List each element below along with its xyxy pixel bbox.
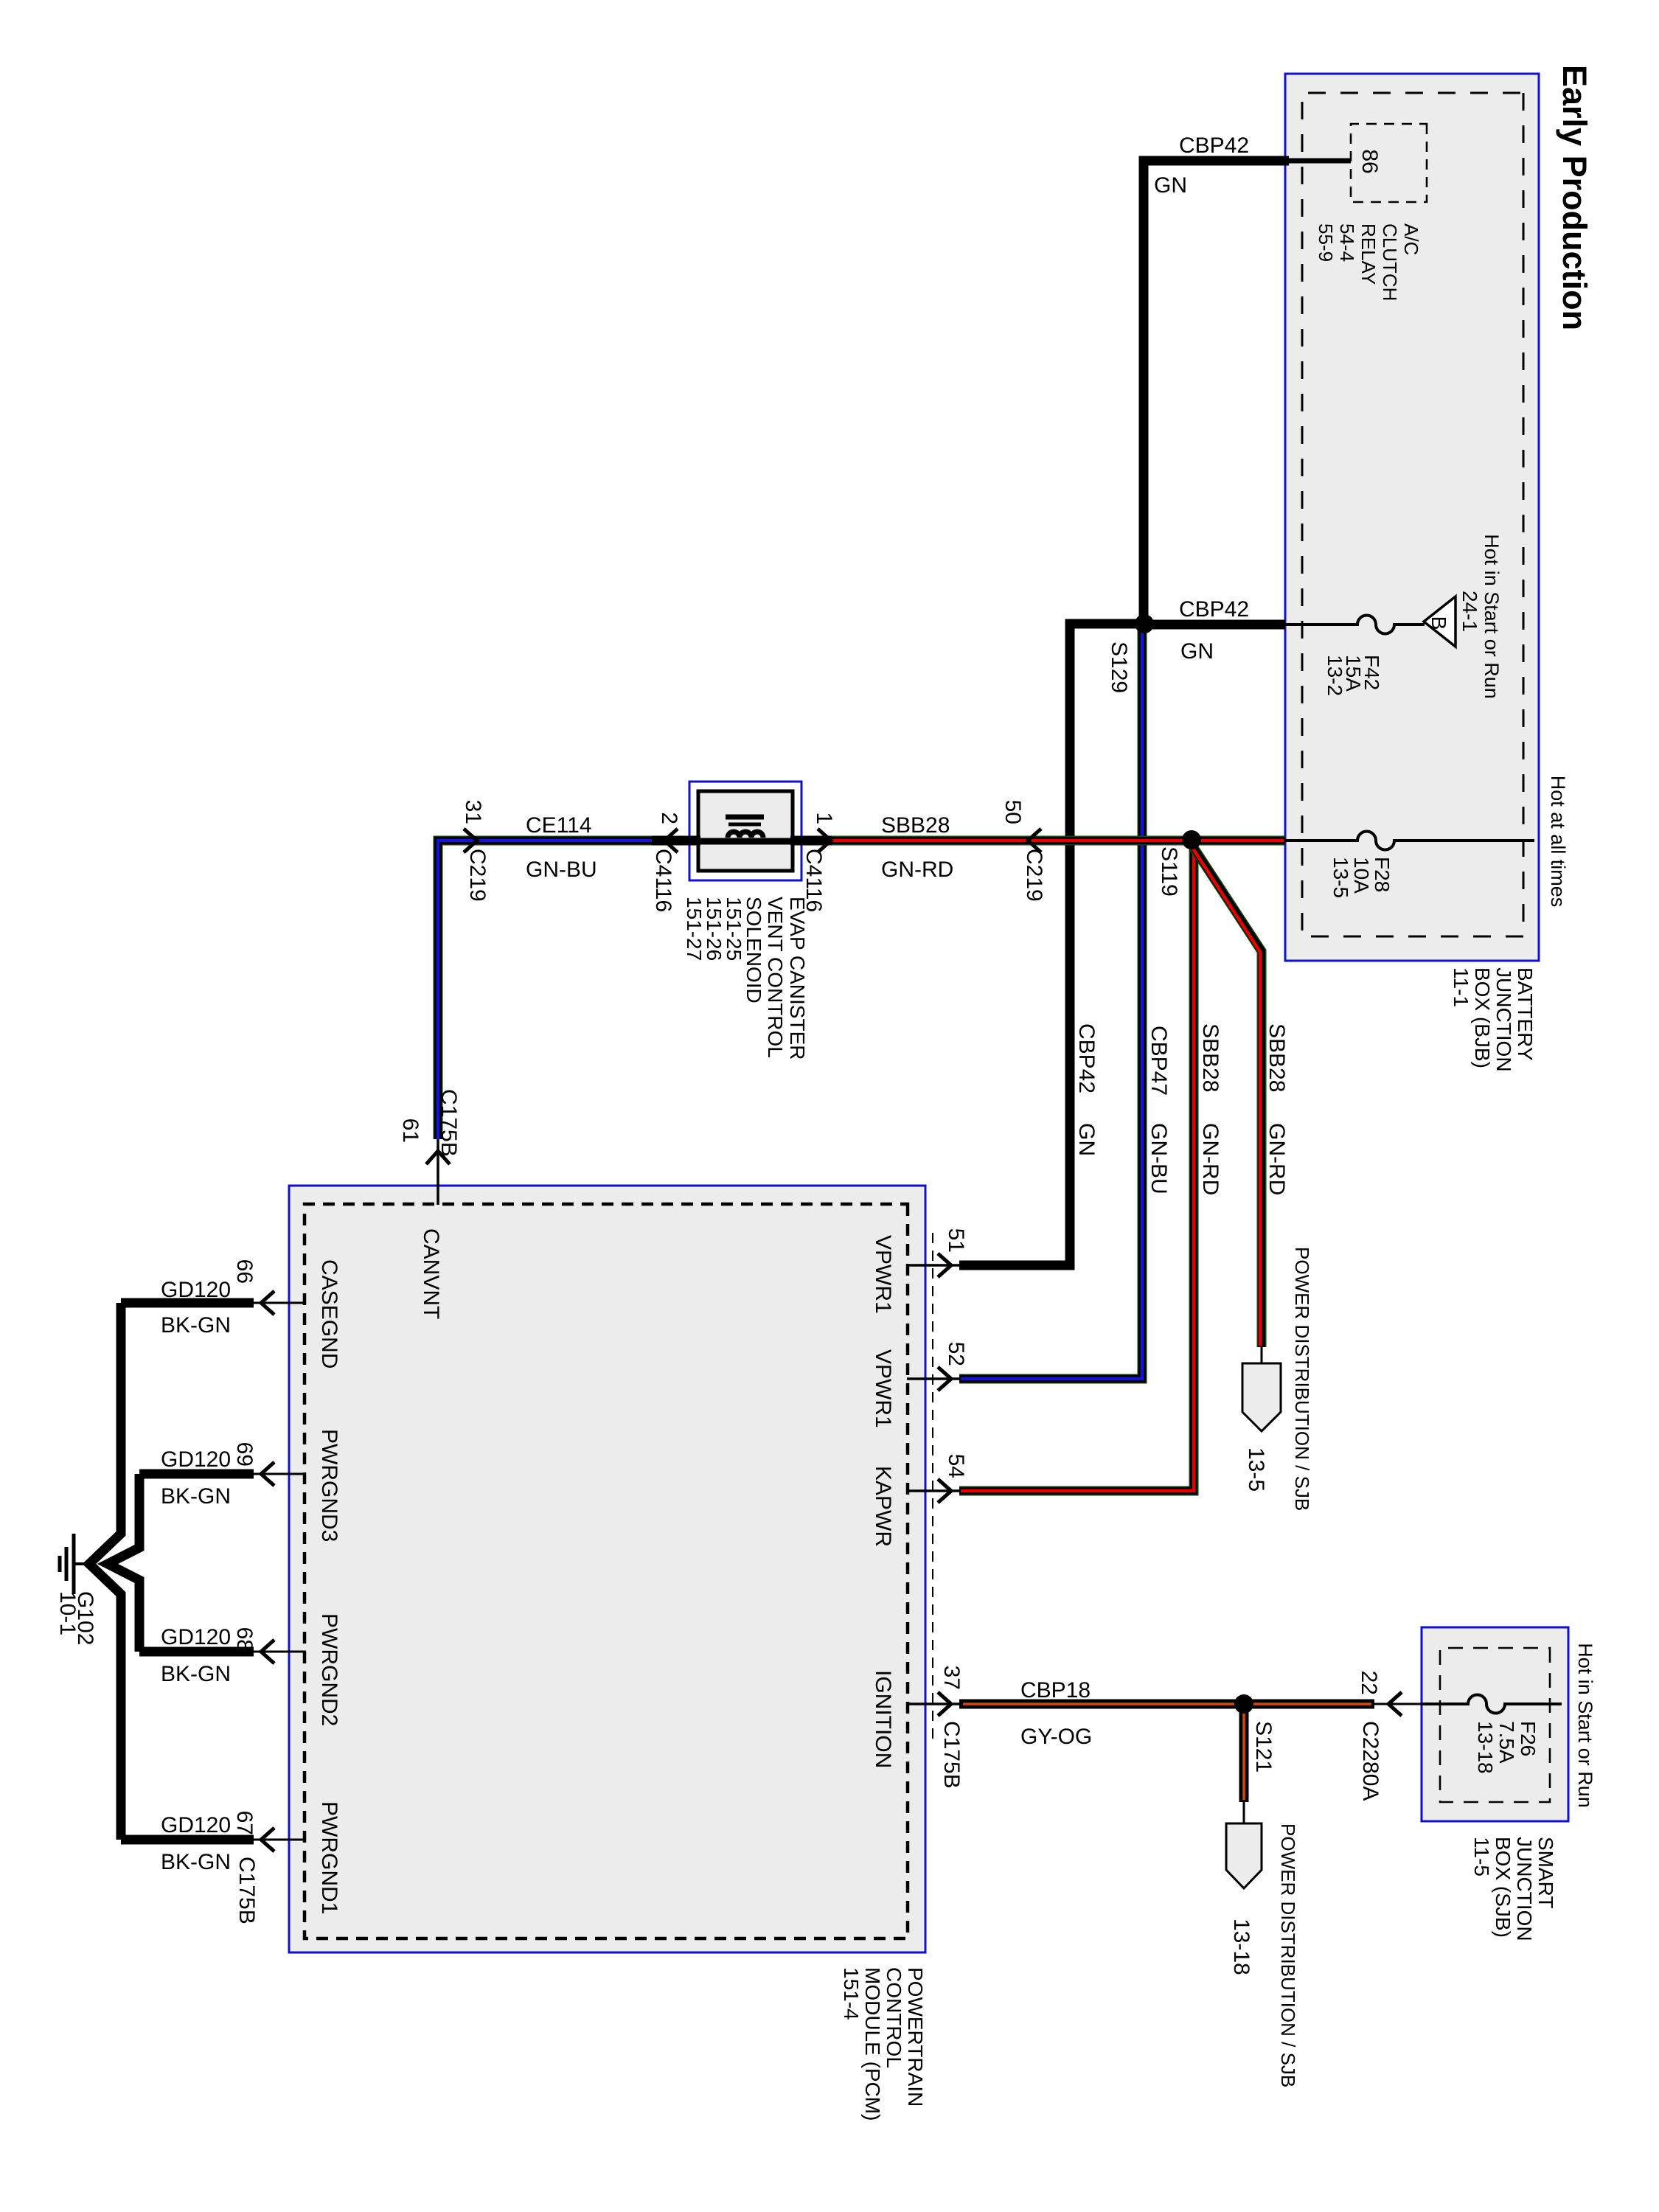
arrow pin 2 C4116: [664, 829, 678, 852]
PCM pin name PWRGND1 (67): [317, 1801, 341, 1914]
pin 2 and connector C4116: [651, 812, 681, 912]
label POWERTRAIN CONTROL MODULE (PCM) 151-4: [840, 1967, 927, 2121]
PCM inner dashed boundary: [305, 1204, 908, 1938]
svg-text:GN-RD: GN-RD: [1198, 1123, 1222, 1195]
svg-text:BOX (SJB): BOX (SJB): [1492, 1837, 1514, 1938]
svg-text:13-18: 13-18: [1229, 1919, 1253, 1975]
svg-text:GN-RD: GN-RD: [1265, 1123, 1289, 1195]
wire black stub from solenoid box (pin 1): [790, 836, 835, 846]
svg-text:37: 37: [939, 1666, 964, 1690]
pin 50 and connector C219: [1001, 800, 1046, 902]
fuse F26 label: [1474, 1721, 1540, 1774]
junction S121: [1234, 1694, 1253, 1714]
svg-text:S119: S119: [1157, 846, 1181, 897]
svg-text:68: 68: [232, 1627, 257, 1652]
label POWER DISTRIBUTION / SJB (13-5): [1244, 1247, 1313, 1511]
svg-text:10A: 10A: [1350, 857, 1373, 894]
header Hot in Start or Run (BJB): [1481, 534, 1503, 699]
svg-text:Hot in Start or Run: Hot in Start or Run: [1574, 1643, 1596, 1808]
arrow pin 54: [938, 1479, 951, 1503]
label GD120 BK-GN (pin 66): [161, 1278, 231, 1338]
svg-text:PWRGND1: PWRGND1: [317, 1801, 341, 1914]
wire CBP42 GN relay stub (pin 86): [1284, 159, 1351, 164]
svg-text:CONTROL: CONTROL: [883, 1967, 905, 2068]
svg-text:B: B: [1427, 616, 1450, 630]
off-page arrow POWER DISTRIBUTION / SJB 13-18: [1226, 1823, 1262, 1888]
arrow pin 31 C219: [464, 829, 477, 852]
svg-text:SBB28: SBB28: [1198, 1023, 1222, 1092]
svg-text:BK-GN: BK-GN: [161, 1662, 231, 1686]
PCM pin name VPWR1 (52): [871, 1349, 895, 1428]
svg-text:C2280A: C2280A: [1358, 1721, 1382, 1801]
arrow pin 61: [426, 1151, 450, 1164]
svg-text:CE114: CE114: [526, 813, 592, 838]
pin 31 and connector C219: [461, 800, 490, 902]
pin number 37 and connector C175B: [939, 1666, 964, 1789]
svg-text:54: 54: [944, 1454, 968, 1478]
wire SBB28 GN-RD bus from pin 1 to BJB fuse F28: [832, 836, 1285, 846]
svg-text:PWRGND2: PWRGND2: [317, 1613, 341, 1726]
svg-text:MODULE (PCM): MODULE (PCM): [861, 1967, 884, 2121]
pin stub 61: [437, 1139, 439, 1205]
svg-text:JUNCTION: JUNCTION: [1492, 967, 1515, 1072]
svg-text:POWERTRAIN: POWERTRAIN: [904, 1967, 927, 2107]
svg-text:CBP47: CBP47: [1147, 1026, 1171, 1096]
fuse F28 10A 13-5: [1285, 832, 1534, 850]
pin 86 label: [1357, 149, 1382, 173]
label EVAP CANISTER VENT CONTROL SOLENOID 151-25 151-26 151-27: [683, 897, 809, 1060]
battery junction box (BJB) outline: [1285, 74, 1539, 961]
wire SBB28 GN-RD from S119 to power distribution arrow: [1190, 842, 1262, 1366]
pin number 68: [232, 1627, 257, 1652]
svg-text:POWER DISTRIBUTION / SJB: POWER DISTRIBUTION / SJB: [1277, 1823, 1299, 2087]
svg-text:51: 51: [944, 1228, 968, 1253]
svg-text:SMART: SMART: [1534, 1837, 1557, 1909]
svg-text:11-5: 11-5: [1470, 1837, 1493, 1877]
label C175B (pin 61 side): [437, 1089, 461, 1157]
PCM pin name VPWR1 (51): [871, 1235, 895, 1314]
arrow pin 52: [938, 1367, 951, 1391]
svg-text:67: 67: [232, 1811, 257, 1835]
svg-text:54-4: 54-4: [1336, 223, 1358, 262]
pin number 69: [232, 1442, 257, 1467]
pin number 66: [232, 1259, 257, 1284]
pin number 52: [944, 1342, 968, 1366]
pin number 54: [944, 1454, 968, 1478]
label GD120 BK-GN (pin 67): [161, 1813, 231, 1874]
svg-text:151-4: 151-4: [840, 1967, 863, 2020]
label GD120 BK-GN (pin 68): [161, 1625, 231, 1686]
svg-text:F28: F28: [1371, 857, 1394, 892]
wire CBP18 GY-OG from PCM pin 37 through S121 to SJB: [959, 1700, 1422, 1709]
wire CBP47 GN-BU from S129 to PCM pin 52: [959, 624, 1142, 1379]
svg-text:31: 31: [461, 800, 485, 824]
arrow pin 69: [261, 1462, 274, 1486]
svg-text:Early Production: Early Production: [1556, 65, 1593, 330]
svg-text:GD120: GD120: [161, 1813, 231, 1837]
svg-text:GN-BU: GN-BU: [1147, 1123, 1171, 1194]
coil core bars: [726, 817, 764, 824]
label SBB28 GN-RD (bus): [881, 813, 953, 882]
svg-text:GN-RD: GN-RD: [881, 858, 953, 882]
PCM pin name KAPWR (54): [871, 1466, 895, 1547]
PCM pin name PWRGND2 (68): [317, 1613, 341, 1726]
pin stub 54: [907, 1489, 961, 1492]
wire GD120 BK-GN pin 69: [139, 1473, 306, 1475]
svg-text:61: 61: [398, 1119, 422, 1143]
label POWER DISTRIBUTION / SJB (13-18): [1229, 1823, 1299, 2087]
wire CBP42 GN riser S129 to fuse F42: [1143, 620, 1285, 630]
label CBP42 GN (to pin 51): [1074, 1023, 1099, 1156]
fuse F28 label: [1329, 857, 1394, 898]
wire CE114 GN-BU from PCM pin 61 to C219 elbow: [438, 841, 666, 1139]
pin number 67 and connector C175B: [232, 1811, 259, 1924]
wire SBB28 GN-RD from S119 to PCM pin 54: [959, 844, 1194, 1491]
svg-text:POWER DISTRIBUTION / SJB: POWER DISTRIBUTION / SJB: [1291, 1247, 1313, 1511]
pin number 51: [944, 1228, 968, 1253]
wire CBP18 branch S121 to power distribution arrow: [1239, 1704, 1249, 1826]
svg-text:IGNITION: IGNITION: [871, 1670, 895, 1768]
wire GD120 BK-GN pin 67: [121, 1839, 306, 1841]
wire GD120 BK-GN pin 66: [121, 1302, 306, 1304]
svg-text:C219: C219: [1022, 849, 1046, 902]
svg-text:11-1: 11-1: [1450, 967, 1472, 1007]
svg-text:SOLENOID: SOLENOID: [742, 897, 765, 1004]
svg-text:BOX (BJB): BOX (BJB): [1471, 967, 1494, 1068]
EVAP canister vent control solenoid box: [689, 782, 801, 880]
svg-text:PWRGND3: PWRGND3: [317, 1429, 341, 1542]
svg-text:EVAP CANISTER: EVAP CANISTER: [786, 897, 809, 1060]
PCM pin name CASEGND (66): [317, 1259, 341, 1368]
arrow pin 1 C4116: [818, 829, 831, 852]
svg-text:GN: GN: [1180, 639, 1214, 664]
svg-text:CBP18: CBP18: [1020, 1678, 1091, 1703]
label CBP47 GN-BU (to pin 52): [1147, 1026, 1171, 1194]
ground bus inner (pins 69,68): [108, 1474, 139, 1652]
svg-text:VPWR1: VPWR1: [871, 1349, 895, 1428]
pin stub 51: [907, 1264, 961, 1267]
svg-text:C175B: C175B: [437, 1089, 461, 1157]
label A/C CLUTCH RELAY 54-4 55-9: [1315, 223, 1422, 301]
ground bus outer (pins 66,67): [89, 1303, 121, 1840]
junction S119: [1182, 830, 1201, 849]
arrow pin 22 C2280A: [1388, 1692, 1402, 1716]
pin stub 52: [907, 1377, 961, 1380]
svg-text:CBP42: CBP42: [1179, 597, 1249, 622]
solenoid coil L1: [692, 832, 799, 841]
fuse F26 7.5A 13-18: [1422, 1694, 1562, 1713]
header Hot at all times: [1547, 776, 1569, 908]
title Early Production: [1556, 65, 1593, 330]
svg-text:CBP42: CBP42: [1074, 1023, 1099, 1093]
ground label G102 10-1: [55, 1591, 97, 1645]
svg-text:7.5A: 7.5A: [1495, 1721, 1518, 1764]
svg-text:10-1: 10-1: [55, 1591, 80, 1635]
svg-text:151-27: 151-27: [683, 897, 706, 961]
wire CBP42 GN from S129 to PCM pin 51: [959, 624, 1147, 1265]
pin stub 37: [907, 1703, 961, 1705]
svg-text:C175B: C175B: [939, 1721, 964, 1789]
svg-text:BK-GN: BK-GN: [161, 1484, 231, 1509]
svg-text:2: 2: [657, 812, 681, 824]
label SMART JUNCTION BOX (SJB) 11-5: [1470, 1837, 1557, 1941]
svg-text:GD120: GD120: [161, 1625, 231, 1649]
splice label S121: [1251, 1721, 1276, 1773]
svg-text:CBP42: CBP42: [1179, 133, 1249, 158]
header Hot in Start or Run (SJB): [1574, 1643, 1596, 1808]
svg-text:GD120: GD120: [161, 1447, 231, 1472]
fuse F42 15A 13-2: [1285, 616, 1425, 634]
svg-text:S129: S129: [1107, 641, 1131, 693]
connector C175B dashed line: [932, 1233, 933, 1740]
svg-text:BK-GN: BK-GN: [161, 1850, 231, 1874]
svg-text:86: 86: [1357, 149, 1382, 173]
svg-text:50: 50: [1001, 800, 1025, 824]
label CBP42 GN (F42 riser): [1179, 597, 1249, 664]
PCM pin name CANVNT (61): [419, 1228, 443, 1319]
svg-text:151-25: 151-25: [723, 897, 745, 961]
label SBB28 GN-RD (to power distribution): [1265, 1023, 1289, 1195]
arrow pin 51: [938, 1253, 951, 1277]
svg-text:66: 66: [232, 1259, 257, 1284]
SJB inner dashed boundary: [1440, 1648, 1550, 1802]
svg-text:24-1: 24-1: [1458, 591, 1481, 632]
off-page arrow POWER DISTRIBUTION / SJB 13-5: [1242, 1363, 1281, 1431]
arrow pin 66: [261, 1291, 274, 1315]
svg-text:13-5: 13-5: [1244, 1447, 1268, 1492]
svg-text:13-5: 13-5: [1329, 857, 1352, 898]
svg-text:CLUTCH: CLUTCH: [1379, 223, 1401, 301]
label SBB28 GN-RD (to pin 54): [1198, 1023, 1222, 1195]
svg-text:S121: S121: [1251, 1721, 1276, 1773]
svg-text:GN: GN: [1154, 173, 1187, 198]
svg-text:13-2: 13-2: [1324, 655, 1346, 696]
pin 1 and connector C4116: [801, 812, 836, 912]
svg-text:GN: GN: [1074, 1123, 1099, 1156]
arrow pin 68: [261, 1640, 274, 1663]
label CBP42 GN (relay riser): [1154, 133, 1249, 198]
pin number 61: [398, 1119, 422, 1143]
wire CBP42 GN from BJB edge to corner to S129: [1144, 161, 1289, 627]
svg-text:Hot at all times: Hot at all times: [1547, 776, 1569, 908]
BJB inner dashed boundary: [1302, 93, 1523, 936]
svg-text:1: 1: [812, 812, 836, 824]
smart junction box (SJB) outline: [1422, 1627, 1568, 1821]
label CBP18 GY-OG: [1020, 1678, 1092, 1749]
svg-text:F26: F26: [1517, 1721, 1540, 1756]
powertrain control module (PCM) outline: [289, 1186, 925, 1952]
arrow pin 50 C219: [1028, 829, 1041, 852]
svg-text:69: 69: [232, 1442, 257, 1467]
svg-text:13-18: 13-18: [1474, 1721, 1497, 1774]
svg-text:CASEGND: CASEGND: [317, 1259, 341, 1368]
power source triangle B 24-1: [1424, 591, 1481, 647]
arrow pin 67: [261, 1828, 274, 1851]
svg-text:VPWR1: VPWR1: [871, 1235, 895, 1314]
svg-text:JUNCTION: JUNCTION: [1513, 1837, 1536, 1941]
svg-text:Hot in Start or Run: Hot in Start or Run: [1481, 534, 1503, 699]
PCM pin name PWRGND3 (69): [317, 1429, 341, 1542]
fuse F42 label: [1324, 655, 1383, 696]
svg-text:KAPWR: KAPWR: [871, 1466, 895, 1547]
svg-text:VENT CONTROL: VENT CONTROL: [764, 897, 787, 1058]
svg-text:RELAY: RELAY: [1357, 223, 1380, 285]
A/C clutch relay dashed box: [1351, 124, 1427, 202]
ground symbol G102: [60, 1534, 96, 1594]
svg-text:A/C: A/C: [1400, 223, 1422, 255]
PCM pin name IGNITION (37): [871, 1670, 895, 1768]
svg-text:BK-GN: BK-GN: [161, 1313, 231, 1338]
svg-text:52: 52: [944, 1342, 968, 1366]
svg-text:C175B: C175B: [234, 1857, 259, 1924]
splice label S129: [1107, 641, 1131, 693]
svg-text:55-9: 55-9: [1315, 223, 1337, 262]
arrow pin 37: [938, 1692, 951, 1716]
svg-text:22: 22: [1357, 1671, 1381, 1695]
label CE114 GN-BU (bus): [526, 813, 597, 882]
svg-text:C4116: C4116: [651, 849, 675, 912]
splice label S119: [1157, 846, 1181, 897]
wire GD120 BK-GN pin 68: [139, 1651, 306, 1653]
svg-text:BATTERY: BATTERY: [1514, 967, 1537, 1061]
junction S129: [1135, 614, 1154, 633]
label BATTERY JUNCTION BOX (BJB) 11-1: [1450, 967, 1537, 1072]
svg-text:GD120: GD120: [161, 1278, 231, 1302]
svg-text:151-26: 151-26: [703, 897, 726, 961]
label GD120 BK-GN (pin 69): [161, 1447, 231, 1509]
svg-text:SBB28: SBB28: [881, 813, 950, 838]
svg-text:GY-OG: GY-OG: [1020, 1725, 1092, 1749]
pin 22 and connector C2280A: [1357, 1671, 1382, 1801]
wire black stub into solenoid box (pin 2): [652, 836, 700, 846]
svg-text:SBB28: SBB28: [1265, 1023, 1289, 1092]
svg-text:C4116: C4116: [801, 849, 826, 912]
svg-text:GN-BU: GN-BU: [526, 858, 597, 882]
svg-text:C219: C219: [465, 849, 490, 902]
svg-text:CANVNT: CANVNT: [419, 1228, 443, 1319]
